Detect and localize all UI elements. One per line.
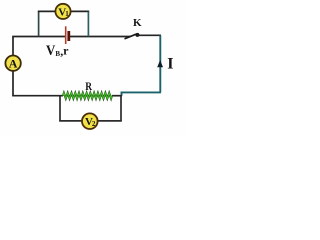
svg-text:I: I <box>167 55 173 72</box>
wire: V2 loop left riser <box>59 96 61 121</box>
ammeter A circle <box>5 56 20 71</box>
switch K lever <box>125 34 137 39</box>
wire: switch dot to top-right corner <box>139 34 162 36</box>
voltmeter V1 circle <box>55 4 70 19</box>
wire: left vertical (battery negative to ammeter to bottom-left corner) <box>12 37 14 96</box>
battery VB long plate (positive) <box>65 26 67 44</box>
wire: bottom-left horizontal to resistor <box>12 95 63 97</box>
resistor R zigzag green body <box>63 93 112 99</box>
svg-text:r: r <box>63 44 69 58</box>
current arrow I on right wire <box>157 60 163 67</box>
wire: V2 loop right riser <box>120 95 122 121</box>
wire: V2 loop bottom-left <box>59 120 82 122</box>
svg-text:K: K <box>133 17 142 29</box>
wire: V1 loop top-right <box>71 10 89 12</box>
resistor R zigzag dark outline <box>63 93 112 99</box>
wire: V2 loop bottom-right <box>98 120 122 122</box>
wire: bottom-right horizontal (teal) to step <box>122 92 161 95</box>
svg-text:A: A <box>9 57 18 71</box>
wire: battery to switch lever <box>70 36 131 38</box>
svg-text:V: V <box>46 43 55 59</box>
svg-text:1: 1 <box>65 10 69 18</box>
voltmeter V2 circle <box>82 113 98 129</box>
wire: V1 loop left riser <box>38 11 40 36</box>
svg-text:2: 2 <box>92 120 96 128</box>
svg-text:R: R <box>85 81 92 93</box>
battery VB short plate (negative) <box>67 31 70 41</box>
switch K contact dot <box>135 33 139 37</box>
wire: V1 loop top-left <box>38 10 55 12</box>
wire: top horizontal from left corner to battery <box>12 36 65 38</box>
wire: right vertical (teal) <box>159 35 161 92</box>
wire: resistor right end to step junction <box>112 95 122 97</box>
wire: V1 loop right riser (teal) <box>87 11 89 36</box>
